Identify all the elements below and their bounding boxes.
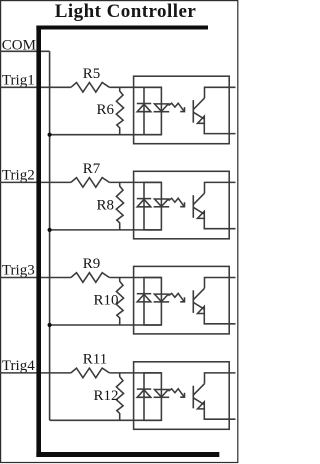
junction dot COM bus / return ch3 — [48, 323, 52, 327]
wire COM bus vertical — [49, 51, 51, 420]
wire collector output ch2 — [205, 182, 236, 193]
svg-text:R6: R6 — [97, 102, 115, 118]
wire emitter output ch3 — [204, 314, 235, 324]
phototransistor ch1 — [193, 98, 204, 123]
optocoupler box ch3 — [134, 266, 230, 334]
junction dot COM bus / return ch1 — [48, 133, 52, 137]
resistor R11 — [71, 368, 110, 378]
svg-text:Trig1: Trig1 — [2, 72, 35, 88]
junction dot COM bus / return ch2 — [48, 228, 52, 232]
wire COM input — [0, 50, 50, 52]
svg-text:Trig3: Trig3 — [2, 263, 35, 279]
wire collector output ch3 — [205, 278, 236, 289]
light arrow ch3 — [169, 293, 185, 301]
thick bottom rail — [36, 452, 219, 457]
border frame — [1, 1, 238, 463]
svg-text:R10: R10 — [94, 292, 119, 308]
LED left (up) ch3 — [137, 294, 151, 302]
wire return line ch3 — [50, 324, 162, 326]
phototransistor ch2 — [193, 193, 204, 218]
svg-text:Light Controller: Light Controller — [55, 1, 197, 22]
optocoupler box ch2 — [134, 171, 230, 239]
thick top rail — [36, 26, 208, 30]
resistor R7 — [71, 178, 110, 188]
LED bridge rectangle ch2 — [144, 182, 161, 230]
LED right (down) ch1 — [154, 104, 170, 112]
resistor R8 (vertical) — [116, 182, 123, 230]
optocoupler box ch1 — [134, 76, 230, 144]
LED bridge rectangle ch4 — [144, 373, 161, 420]
wire emitter output ch1 — [204, 123, 235, 133]
wire Trig4 input line — [0, 372, 161, 374]
wire emitter output ch4 — [204, 409, 235, 419]
LED bridge rectangle ch3 — [144, 278, 161, 326]
thick left rail — [36, 26, 41, 458]
resistor R6 (vertical) — [116, 87, 123, 134]
light arrow ch2 — [169, 198, 185, 206]
LED right (down) ch4 — [154, 390, 170, 398]
phototransistor ch3 — [193, 288, 204, 313]
resistor R5 — [71, 83, 110, 93]
svg-text:R11: R11 — [83, 352, 107, 368]
LED right (down) ch2 — [154, 199, 170, 207]
svg-text:R8: R8 — [97, 197, 115, 213]
optocoupler box ch4 — [134, 362, 230, 430]
wire Trig3 input line — [0, 277, 161, 279]
svg-text:Trig4: Trig4 — [2, 358, 35, 374]
light arrow ch4 — [169, 389, 185, 397]
svg-text:R5: R5 — [83, 66, 101, 82]
wire return line ch1 — [50, 134, 162, 136]
wire return line ch4 — [50, 419, 162, 421]
wire return line ch2 — [50, 229, 162, 231]
light arrow ch1 — [169, 103, 185, 111]
svg-text:R7: R7 — [83, 161, 101, 177]
wire Trig2 input line — [0, 181, 161, 183]
LED bridge rectangle ch1 — [144, 87, 161, 134]
wire collector output ch1 — [205, 87, 236, 98]
LED right (down) ch3 — [154, 294, 170, 302]
resistor R9 — [71, 273, 110, 283]
resistor R10 (vertical) — [116, 278, 123, 326]
svg-text:R9: R9 — [83, 256, 101, 272]
LED left (up) ch2 — [137, 199, 151, 207]
phototransistor ch4 — [193, 384, 204, 409]
wire emitter output ch2 — [204, 218, 235, 228]
svg-text:R12: R12 — [94, 388, 119, 404]
resistor R12 (vertical) — [116, 373, 123, 420]
wire collector output ch4 — [205, 373, 236, 384]
LED left (up) ch1 — [137, 104, 151, 112]
svg-text:Trig2: Trig2 — [2, 167, 35, 183]
wire Trig1 input line — [0, 86, 161, 88]
LED left (up) ch4 — [137, 389, 151, 397]
